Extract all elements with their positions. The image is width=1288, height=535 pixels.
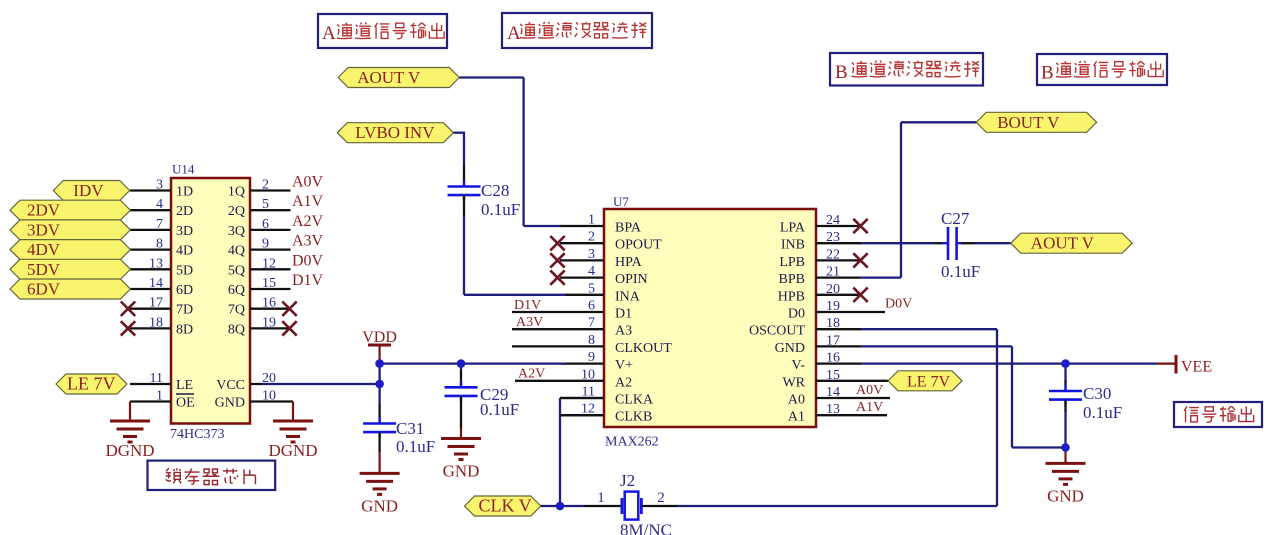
svg-text:VDD: VDD bbox=[362, 329, 397, 346]
svg-text:V-: V- bbox=[792, 358, 806, 373]
svg-text:9: 9 bbox=[262, 237, 269, 252]
svg-text:U14: U14 bbox=[172, 162, 195, 177]
svg-text:9: 9 bbox=[588, 350, 595, 365]
svg-text:V+: V+ bbox=[615, 358, 633, 373]
svg-text:OPOUT: OPOUT bbox=[615, 238, 662, 253]
svg-text:1: 1 bbox=[156, 389, 163, 404]
svg-text:MAX262: MAX262 bbox=[605, 435, 659, 450]
svg-text:18: 18 bbox=[826, 316, 840, 331]
svg-text:7: 7 bbox=[156, 217, 163, 232]
svg-text:BPA: BPA bbox=[615, 221, 642, 236]
svg-text:1: 1 bbox=[597, 490, 605, 506]
svg-text:8M/NC: 8M/NC bbox=[620, 521, 672, 535]
svg-text:3D: 3D bbox=[176, 224, 193, 239]
svg-text:0.1uF: 0.1uF bbox=[396, 437, 435, 456]
svg-text:3: 3 bbox=[156, 178, 163, 193]
svg-text:3Q: 3Q bbox=[228, 224, 245, 239]
svg-text:10: 10 bbox=[262, 389, 276, 404]
svg-text:5D: 5D bbox=[176, 263, 193, 278]
svg-text:A0V: A0V bbox=[292, 174, 324, 191]
svg-text:C31: C31 bbox=[396, 419, 424, 438]
svg-text:A2V: A2V bbox=[518, 366, 545, 381]
svg-text:13: 13 bbox=[149, 256, 163, 271]
svg-text:U7: U7 bbox=[613, 194, 629, 209]
svg-text:7D: 7D bbox=[176, 303, 193, 318]
svg-text:74HC373: 74HC373 bbox=[170, 427, 224, 442]
svg-text:A1V: A1V bbox=[292, 193, 324, 210]
svg-text:4: 4 bbox=[588, 264, 595, 279]
svg-text:0.1uF: 0.1uF bbox=[1083, 403, 1122, 422]
svg-text:18: 18 bbox=[149, 315, 163, 330]
svg-text:7Q: 7Q bbox=[228, 303, 245, 318]
svg-text:D0V: D0V bbox=[885, 297, 912, 312]
svg-text:LE: LE bbox=[176, 378, 193, 393]
svg-text:5DV: 5DV bbox=[27, 260, 61, 279]
svg-text:6Q: 6Q bbox=[228, 283, 245, 298]
svg-text:14: 14 bbox=[826, 385, 840, 400]
svg-text:10: 10 bbox=[581, 367, 595, 382]
svg-text:4D: 4D bbox=[176, 244, 193, 259]
svg-text:21: 21 bbox=[826, 265, 840, 280]
svg-text:A2V: A2V bbox=[292, 213, 324, 230]
svg-text:1Q: 1Q bbox=[228, 185, 245, 200]
svg-text:8Q: 8Q bbox=[228, 322, 245, 337]
svg-text:GND: GND bbox=[775, 341, 805, 356]
svg-text:5Q: 5Q bbox=[228, 263, 245, 278]
svg-text:CLK V: CLK V bbox=[479, 496, 532, 516]
svg-text:IDV: IDV bbox=[73, 181, 104, 200]
svg-text:6: 6 bbox=[588, 299, 595, 314]
svg-text:14: 14 bbox=[149, 276, 163, 291]
svg-text:12: 12 bbox=[262, 256, 276, 271]
svg-text:B: B bbox=[1041, 63, 1054, 84]
svg-text:0.1uF: 0.1uF bbox=[480, 400, 519, 419]
svg-text:A3: A3 bbox=[615, 324, 632, 339]
svg-text:8D: 8D bbox=[176, 322, 193, 337]
svg-text:4Q: 4Q bbox=[228, 244, 245, 259]
svg-text:3DV: 3DV bbox=[27, 220, 61, 239]
svg-text:A2: A2 bbox=[615, 375, 632, 390]
svg-text:15: 15 bbox=[262, 276, 276, 291]
svg-text:BPB: BPB bbox=[779, 272, 805, 287]
svg-text:HPB: HPB bbox=[778, 289, 805, 304]
svg-text:8: 8 bbox=[588, 333, 595, 348]
svg-text:A1V: A1V bbox=[856, 400, 883, 415]
svg-text:8: 8 bbox=[156, 237, 163, 252]
svg-text:D0V: D0V bbox=[292, 252, 324, 269]
svg-text:BOUT V: BOUT V bbox=[997, 113, 1060, 132]
svg-text:VEE: VEE bbox=[1181, 359, 1212, 376]
svg-text:GND: GND bbox=[215, 396, 245, 411]
svg-text:INB: INB bbox=[781, 238, 805, 253]
svg-text:22: 22 bbox=[826, 247, 840, 262]
svg-text:6: 6 bbox=[262, 217, 269, 232]
svg-text:GND: GND bbox=[361, 496, 398, 515]
svg-text:7: 7 bbox=[588, 316, 595, 331]
svg-text:3: 3 bbox=[588, 247, 595, 262]
svg-text:OSCOUT: OSCOUT bbox=[749, 324, 805, 339]
svg-text:1D: 1D bbox=[176, 185, 193, 200]
svg-text:2D: 2D bbox=[176, 204, 193, 219]
svg-text:5: 5 bbox=[262, 197, 269, 212]
svg-text:AOUT V: AOUT V bbox=[1031, 234, 1095, 253]
svg-text:17: 17 bbox=[149, 296, 163, 311]
svg-text:HPA: HPA bbox=[615, 255, 643, 270]
svg-text:15: 15 bbox=[826, 368, 840, 383]
svg-text:D1V: D1V bbox=[292, 272, 324, 289]
svg-text:VCC: VCC bbox=[216, 378, 245, 393]
svg-text:24: 24 bbox=[826, 213, 840, 228]
svg-text:LVBO INV: LVBO INV bbox=[355, 123, 435, 142]
svg-text:INA: INA bbox=[615, 289, 641, 304]
svg-text:GND: GND bbox=[1047, 486, 1084, 505]
svg-text:2: 2 bbox=[657, 490, 665, 506]
svg-text:17: 17 bbox=[826, 333, 840, 348]
svg-text:0.1uF: 0.1uF bbox=[941, 262, 980, 281]
svg-text:16: 16 bbox=[826, 351, 840, 366]
svg-text:4DV: 4DV bbox=[27, 240, 61, 259]
svg-text:D1: D1 bbox=[615, 307, 632, 322]
svg-text:0.1uF: 0.1uF bbox=[481, 200, 520, 219]
svg-text:B: B bbox=[835, 62, 848, 83]
svg-text:C28: C28 bbox=[481, 181, 509, 200]
svg-text:19: 19 bbox=[826, 299, 840, 314]
svg-text:2: 2 bbox=[262, 178, 269, 193]
svg-text:C27: C27 bbox=[941, 209, 970, 228]
svg-text:A: A bbox=[507, 23, 521, 44]
svg-text:23: 23 bbox=[826, 230, 840, 245]
svg-text:LPB: LPB bbox=[779, 255, 805, 270]
svg-text:16: 16 bbox=[262, 296, 276, 311]
svg-text:A3V: A3V bbox=[292, 233, 324, 250]
svg-text:5: 5 bbox=[588, 281, 595, 296]
svg-text:D0: D0 bbox=[788, 307, 805, 322]
svg-text:11: 11 bbox=[150, 371, 163, 386]
svg-text:2: 2 bbox=[588, 230, 595, 245]
svg-text:A: A bbox=[322, 23, 336, 44]
svg-text:2Q: 2Q bbox=[228, 204, 245, 219]
svg-text:OPIN: OPIN bbox=[615, 272, 648, 287]
svg-text:J2: J2 bbox=[620, 471, 635, 490]
svg-text:DGND: DGND bbox=[268, 441, 317, 460]
svg-text:GND: GND bbox=[443, 462, 480, 481]
svg-text:CLKA: CLKA bbox=[615, 393, 654, 408]
svg-text:2DV: 2DV bbox=[27, 201, 61, 220]
svg-text:LE 7V: LE 7V bbox=[67, 374, 116, 394]
svg-text:CLKB: CLKB bbox=[615, 410, 652, 425]
svg-text:A3V: A3V bbox=[516, 315, 543, 330]
svg-text:1: 1 bbox=[588, 213, 595, 228]
svg-text:OE: OE bbox=[176, 396, 195, 411]
svg-text:LPA: LPA bbox=[780, 221, 806, 236]
svg-text:A0V: A0V bbox=[856, 383, 883, 398]
svg-text:20: 20 bbox=[826, 282, 840, 297]
svg-text:LE 7V: LE 7V bbox=[907, 373, 951, 390]
svg-text:6D: 6D bbox=[176, 283, 193, 298]
svg-text:AOUT V: AOUT V bbox=[357, 68, 421, 87]
svg-text:CLKOUT: CLKOUT bbox=[615, 341, 672, 356]
svg-text:19: 19 bbox=[262, 315, 276, 330]
svg-text:13: 13 bbox=[826, 402, 840, 417]
svg-text:A1: A1 bbox=[788, 410, 805, 425]
svg-text:C30: C30 bbox=[1083, 384, 1111, 403]
svg-text:A0: A0 bbox=[788, 393, 805, 408]
svg-text:DGND: DGND bbox=[105, 441, 154, 460]
svg-text:WR: WR bbox=[782, 375, 805, 390]
svg-text:4: 4 bbox=[156, 197, 163, 212]
svg-text:6DV: 6DV bbox=[27, 280, 61, 299]
svg-text:D1V: D1V bbox=[514, 298, 541, 313]
